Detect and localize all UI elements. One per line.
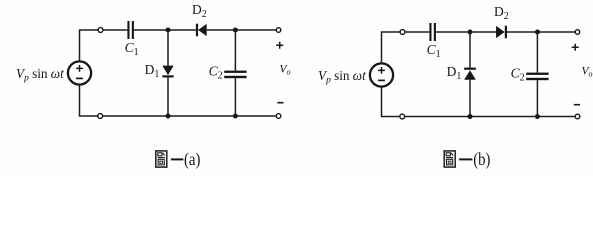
wire: input node to C1 (a) [103,29,128,31]
diode D1 (b) : pointing up [464,68,476,80]
diode D2 (b) [496,26,507,39]
wire: source top to input node (b) [382,32,403,63]
voltage source Vs (a) [68,61,91,84]
wire: node A down to D1 (a) [167,30,169,66]
caption figure 1 (a) : character tu [156,151,167,167]
wire: C2 to bottom rail (b) [536,80,538,116]
caption figure 1 (b) : character yi [459,158,472,160]
wire: C1 to node A (a) [134,29,196,31]
svg-text:Vp sin ωt: Vp sin ωt [16,66,64,84]
wire: node A down to D1 (b) [469,32,471,68]
wire: D1 to bottom rail (a) [167,78,169,117]
label + output (b) [572,44,579,51]
capacitor C2 (b) [526,73,548,81]
terminal: output - circle (b) [575,114,580,119]
terminal: output + circle (a) [276,28,281,33]
wire: D2 to node B and output + terminal (a) [207,29,276,31]
node: input + terminal circle (b) [400,30,405,35]
terminal: output + circle (b) [575,30,580,35]
wire: source top to input node (a) [80,30,101,61]
label - output (a) [277,102,283,104]
svg-text:(a): (a) [184,149,200,170]
junction node B top (a) [233,28,238,33]
wire: D2 to node B and output + terminal (b) [507,31,575,33]
wire: C1 to node A (b) [436,31,498,33]
svg-text:Vp sin ωt: Vp sin ωt [318,68,366,86]
diode D1 (a) : pointing down [162,66,173,78]
voltage source Vs (b) [370,63,393,86]
capacitor C1 (b) [429,23,436,41]
wire: node B down to C2 (a) [234,30,236,71]
capacitor C1 (a) [127,21,134,39]
terminal: output - circle (a) [276,114,281,119]
junction node A bottom (b) [468,114,473,119]
svg-text:(b): (b) [473,149,490,170]
wire: source bottom to input - node (b) [382,87,400,117]
caption figure 1 (a) : character yi [171,158,183,160]
wire: bottom rail (a) [103,115,277,117]
junction node B bottom (b) [535,114,540,119]
diode D2 (a) [196,24,207,37]
node: input + terminal circle (a) [98,28,103,33]
junction node B top (b) [535,30,540,35]
label - output (b) [574,104,580,106]
wire: C2 to bottom rail (a) [234,78,236,116]
junction node B bottom (a) [233,114,238,119]
capacitor C2 (a) [224,71,246,79]
wire: node B down to C2 (b) [536,32,538,73]
node: input - terminal circle (b) [400,114,405,119]
node: input - terminal circle (a) [98,114,103,119]
wire: source bottom to input - node (a) [80,85,98,116]
wire: D1 to bottom rail (b) [469,80,471,117]
label + output (a) [276,42,283,49]
wire: bottom rail (b) [405,116,575,118]
junction node A top (b) [468,30,473,35]
junction node A bottom (a) [166,114,171,119]
junction node A top (a) [166,28,171,33]
caption figure 1 (b) : character tu [444,151,455,167]
wire: input node to C1 (b) [405,31,430,33]
